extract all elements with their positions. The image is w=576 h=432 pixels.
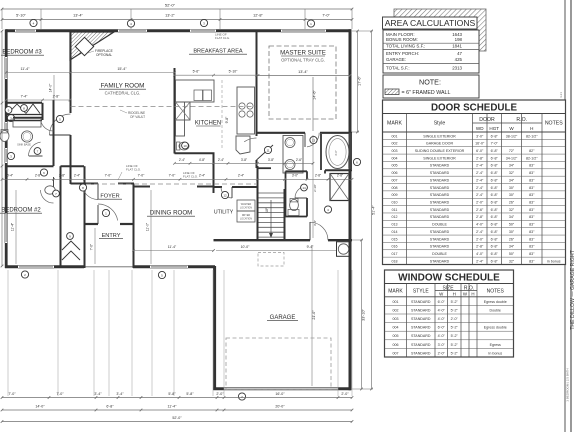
svg-text:11: 11 xyxy=(266,148,269,152)
door mark master bath xyxy=(310,136,317,143)
wall bedroom3 east / family west xyxy=(70,32,72,113)
svg-text:3'-4": 3'-4" xyxy=(116,392,124,396)
svg-text:6'-8": 6'-8" xyxy=(491,193,499,197)
svg-text:5'-4": 5'-4" xyxy=(7,174,13,178)
svg-text:007: 007 xyxy=(393,351,399,355)
svg-text:6'-8": 6'-8" xyxy=(491,252,499,256)
svg-text:LOCATION: LOCATION xyxy=(240,217,252,220)
svg-text:3 BEDROOM | 2.5 BATH: 3 BEDROOM | 2.5 BATH xyxy=(566,368,570,401)
dim line mid bath vertical xyxy=(312,135,314,238)
utility door arc D012 xyxy=(221,187,232,198)
svg-text:13: 13 xyxy=(312,138,316,142)
svg-text:7'-4": 7'-4" xyxy=(21,94,29,98)
attic access dashed xyxy=(258,253,284,267)
wall foyer/dining east xyxy=(133,184,135,269)
svg-text:UTILITY: UTILITY xyxy=(214,210,234,216)
wall dining east / utility west xyxy=(213,153,215,187)
svg-text:16'-0": 16'-0" xyxy=(475,142,485,146)
svg-text:6'-8": 6'-8" xyxy=(491,171,499,175)
svg-text:34": 34" xyxy=(509,245,515,249)
svg-text:DOUBLE: DOUBLE xyxy=(432,252,447,256)
door mark 003 xyxy=(200,19,207,26)
svg-text:12: 12 xyxy=(223,193,227,197)
svg-text:6'-8": 6'-8" xyxy=(491,245,499,249)
bath2 toilet xyxy=(45,186,55,194)
door schedule header xyxy=(473,118,502,120)
exterior wall right xyxy=(349,29,352,390)
window mark left 3 xyxy=(7,152,14,159)
window mark front bedroom2 xyxy=(21,271,28,278)
svg-text:CATHEDRAL CLG.: CATHEDRAL CLG. xyxy=(105,91,141,96)
kitchen upper cabinets dashed xyxy=(221,80,223,148)
stair up arrow xyxy=(270,200,272,236)
svg-text:6'-8": 6'-8" xyxy=(491,223,499,227)
svg-text:17'-6": 17'-6" xyxy=(357,76,361,86)
area calculations data box xyxy=(383,30,479,73)
svg-text:Egress double: Egress double xyxy=(484,300,507,304)
door mark bath1 xyxy=(34,148,41,155)
svg-text:NOTES: NOTES xyxy=(545,121,563,127)
svg-text:83": 83" xyxy=(529,215,535,219)
svg-text:FLAT CLG.: FLAT CLG. xyxy=(126,168,141,172)
svg-text:008: 008 xyxy=(392,186,398,190)
svg-text:47: 47 xyxy=(457,51,462,56)
svg-text:AREA CALCULATIONS: AREA CALCULATIONS xyxy=(385,18,476,28)
svg-text:Style: Style xyxy=(434,121,446,127)
svg-text:ENTRY: ENTRY xyxy=(102,233,121,239)
porch edge line xyxy=(84,266,133,268)
svg-text:4-21: 4-21 xyxy=(559,92,563,98)
svg-text:14'-0": 14'-0" xyxy=(35,405,45,409)
svg-text:2'-8": 2'-8" xyxy=(337,174,343,178)
svg-text:10: 10 xyxy=(183,144,187,148)
svg-text:NOTE:: NOTE: xyxy=(419,78,441,87)
svg-text:SINGLE EXTERIOR: SINGLE EXTERIOR xyxy=(423,134,456,138)
svg-text:STANDARD: STANDARD xyxy=(430,245,450,249)
svg-text:7'-0": 7'-0" xyxy=(105,174,113,178)
svg-text:6'-0": 6'-0" xyxy=(438,326,446,330)
six inch framed wall dark band xyxy=(349,133,352,169)
svg-text:7'-0": 7'-0" xyxy=(138,174,146,178)
window left wall 2 xyxy=(5,122,8,140)
svg-text:34": 34" xyxy=(509,178,515,182)
svg-text:DOUBLE: DOUBLE xyxy=(432,223,447,227)
svg-text:STANDARD: STANDARD xyxy=(411,334,431,338)
refrigerator xyxy=(236,136,250,154)
svg-text:83": 83" xyxy=(529,237,535,241)
svg-text:15'-4": 15'-4" xyxy=(117,67,127,71)
window mark top 1 xyxy=(30,19,37,26)
svg-text:MASTER SUITE: MASTER SUITE xyxy=(280,50,326,57)
svg-text:50": 50" xyxy=(509,223,515,227)
svg-text:11'-4": 11'-4" xyxy=(168,245,177,249)
svg-text:4'-8": 4'-8" xyxy=(199,158,205,162)
wall bed2 east closet xyxy=(60,166,62,266)
svg-text:5'-2": 5'-2" xyxy=(451,351,459,355)
svg-text:425: 425 xyxy=(455,57,463,62)
svg-text:2'-8": 2'-8" xyxy=(315,174,321,178)
window W006 front dining xyxy=(150,265,188,268)
svg-text:003: 003 xyxy=(392,149,398,153)
svg-text:NOTES: NOTES xyxy=(487,288,505,294)
bath1 vanity xyxy=(13,119,41,128)
window W004 top wall family room xyxy=(118,29,147,32)
exterior wall left xyxy=(5,29,8,268)
svg-text:2'-4": 2'-4" xyxy=(218,158,224,162)
svg-text:2'-4": 2'-4" xyxy=(476,186,484,190)
bath1 toilet xyxy=(0,131,9,142)
dim 14-0 vertical bed3 xyxy=(53,75,55,100)
kitchen counters top xyxy=(176,80,215,102)
svg-text:6'-8": 6'-8" xyxy=(106,405,114,409)
right dim horizontal stubs xyxy=(352,30,373,32)
area calculations title box xyxy=(383,17,478,29)
svg-text:005: 005 xyxy=(392,164,398,168)
svg-text:016: 016 xyxy=(392,245,398,249)
fireplace structure xyxy=(70,32,114,60)
svg-text:STANDARD: STANDARD xyxy=(411,326,431,330)
svg-text:OF VAULT: OF VAULT xyxy=(130,115,145,119)
bottom dim row 2 xyxy=(2,409,352,411)
bath1 sink xyxy=(21,131,32,142)
window left wall bedroom2 xyxy=(5,213,8,243)
door mark bath2 xyxy=(53,190,60,197)
svg-text:002: 002 xyxy=(392,142,398,146)
garage 10-0 dim xyxy=(216,250,284,252)
svg-text:In bonus: In bonus xyxy=(488,351,502,355)
svg-text:6'-8": 6'-8" xyxy=(491,178,499,182)
svg-text:2313: 2313 xyxy=(452,65,462,70)
framed wall legend swatch xyxy=(385,89,399,95)
svg-text:33'-10": 33'-10" xyxy=(361,308,365,320)
svg-text:STANDARD: STANDARD xyxy=(430,215,450,219)
svg-text:UP: UP xyxy=(265,207,269,212)
window mark right master bath xyxy=(353,158,360,165)
svg-text:6'-8": 6'-8" xyxy=(491,164,499,168)
svg-text:MARK: MARK xyxy=(388,288,403,294)
door mark closet bed2 xyxy=(67,233,74,240)
wall foyer west xyxy=(84,166,86,268)
door mark 005 xyxy=(56,115,63,122)
window mark left 2 xyxy=(7,114,14,121)
dim 7-0 vertical entry xyxy=(94,228,96,264)
svg-text:34": 34" xyxy=(509,215,515,219)
hall bath walls xyxy=(42,103,44,120)
dim line bedroom3/family xyxy=(6,72,175,74)
wall master west xyxy=(256,32,258,136)
svg-text:BONUS ROOM:: BONUS ROOM: xyxy=(386,37,418,42)
svg-text:5'-2": 5'-2" xyxy=(451,326,459,330)
svg-text:3'-4": 3'-4" xyxy=(94,392,102,396)
svg-text:72": 72" xyxy=(509,149,515,153)
foyer north wall xyxy=(71,183,99,185)
svg-text:11'-4": 11'-4" xyxy=(11,222,15,231)
svg-text:51'-4": 51'-4" xyxy=(371,205,375,215)
svg-text:6'-0": 6'-0" xyxy=(476,149,484,153)
svg-text:4'-0": 4'-0" xyxy=(476,252,484,256)
svg-text:2'-8": 2'-8" xyxy=(35,174,41,178)
stove burners xyxy=(239,103,245,109)
svg-text:34": 34" xyxy=(509,164,515,168)
svg-text:5'-8": 5'-8" xyxy=(168,392,176,396)
svg-text:H: H xyxy=(471,292,474,297)
svg-text:DINING ROOM: DINING ROOM xyxy=(150,210,193,217)
svg-text:GARAGE DOOR: GARAGE DOOR xyxy=(426,142,454,146)
svg-text:Egress: Egress xyxy=(490,343,501,347)
water heater xyxy=(337,242,351,256)
svg-text:83": 83" xyxy=(529,178,535,182)
svg-text:11'-4": 11'-4" xyxy=(168,405,178,409)
window left wall 1 xyxy=(5,57,8,79)
svg-text:2'-0": 2'-0" xyxy=(341,392,349,396)
svg-text:2'-4": 2'-4" xyxy=(179,158,185,162)
svg-text:83": 83" xyxy=(529,201,535,205)
stairs west wall xyxy=(257,166,259,241)
svg-text:11'-0": 11'-0" xyxy=(146,222,150,231)
garage left wall xyxy=(213,266,216,390)
window schedule table xyxy=(385,270,514,357)
svg-text:11'-4": 11'-4" xyxy=(21,67,31,71)
svg-text:38-1/2": 38-1/2" xyxy=(506,134,518,138)
svg-text:83": 83" xyxy=(529,259,535,263)
dining north wall stubs xyxy=(134,186,151,188)
svg-text:2'-8": 2'-8" xyxy=(59,174,65,178)
svg-text:018: 018 xyxy=(392,259,398,263)
kitchen south wall xyxy=(175,152,215,154)
area calculations hatched backdrop xyxy=(394,9,486,51)
svg-text:50": 50" xyxy=(509,252,515,256)
door mark 001 xyxy=(102,209,109,216)
svg-text:6'-8": 6'-8" xyxy=(491,149,499,153)
kitchen powder toilet xyxy=(179,142,189,150)
window W002 front bedroom2 xyxy=(18,265,54,268)
svg-text:STANDARD: STANDARD xyxy=(430,178,450,182)
svg-text:82-1/2": 82-1/2" xyxy=(526,156,538,160)
dim line bed3 bottom xyxy=(6,99,70,101)
entry/foyer wall with front door xyxy=(85,223,99,225)
right dim 51-4 xyxy=(371,31,373,389)
svg-text:BEDROOM #2: BEDROOM #2 xyxy=(1,208,41,214)
svg-text:6'-8": 6'-8" xyxy=(491,201,499,205)
svg-text:3'-6": 3'-6" xyxy=(334,150,338,156)
svg-text:3'-0": 3'-0" xyxy=(438,343,446,347)
svg-text:GARAGE: GARAGE xyxy=(270,315,296,321)
svg-text:2'-0": 2'-0" xyxy=(476,237,484,241)
window right wall master bath xyxy=(348,152,351,168)
svg-text:83": 83" xyxy=(529,245,535,249)
vanity sink 2 xyxy=(285,160,295,170)
svg-text:ENTRY PORCH:: ENTRY PORCH: xyxy=(386,51,419,56)
svg-text:STANDARD: STANDARD xyxy=(430,230,450,234)
svg-text:3'-8": 3'-8" xyxy=(268,158,274,162)
svg-text:16'-0": 16'-0" xyxy=(275,392,285,396)
vanity sink 1 xyxy=(285,138,295,148)
svg-text:3'-8": 3'-8" xyxy=(241,158,247,162)
svg-text:2'-0": 2'-0" xyxy=(438,351,446,355)
svg-text:in bonus: in bonus xyxy=(547,259,561,263)
svg-text:TOTAL LIVING S.F.:: TOTAL LIVING S.F.: xyxy=(386,43,425,48)
svg-text:STYLE: STYLE xyxy=(413,288,430,294)
svg-text:83": 83" xyxy=(529,164,535,168)
svg-text:006: 006 xyxy=(392,171,398,175)
svg-text:83": 83" xyxy=(529,208,535,212)
svg-text:5'-10": 5'-10" xyxy=(16,14,26,18)
svg-text:2'-0": 2'-0" xyxy=(476,201,484,205)
svg-text:6'-8": 6'-8" xyxy=(491,134,499,138)
svg-text:2'-0": 2'-0" xyxy=(216,392,224,396)
svg-text:BREAKFAST AREA: BREAKFAST AREA xyxy=(193,49,243,55)
svg-text:014: 014 xyxy=(392,230,398,234)
svg-text:14'-6": 14'-6" xyxy=(313,90,317,100)
svg-text:20'-0": 20'-0" xyxy=(275,405,285,409)
master bath vanity xyxy=(283,136,303,174)
dim 11-0 vertical dining xyxy=(150,190,152,264)
svg-text:83": 83" xyxy=(529,193,535,197)
door mark 002 garage door xyxy=(238,393,245,400)
bottom dim row 1 xyxy=(2,397,352,399)
svg-text:OPTIONAL TRAY CLG.: OPTIONAL TRAY CLG. xyxy=(281,58,325,63)
dim line dining 11-4 xyxy=(134,250,214,252)
svg-text:6'-8": 6'-8" xyxy=(491,259,499,263)
svg-text:6'-8": 6'-8" xyxy=(491,215,499,219)
note box xyxy=(383,75,479,98)
svg-text:2'-4": 2'-4" xyxy=(238,174,244,178)
svg-text:3'-0": 3'-0" xyxy=(292,174,298,178)
kitchen left counter xyxy=(176,102,185,136)
svg-text:9'-4": 9'-4" xyxy=(307,245,315,249)
door mark 012 xyxy=(221,191,228,198)
svg-text:6'-0": 6'-0" xyxy=(438,300,446,304)
svg-text:002: 002 xyxy=(393,308,399,312)
dim line breakfast xyxy=(175,74,257,76)
door mark bed2 xyxy=(40,169,47,176)
front door D001 leaf and arc xyxy=(98,204,118,221)
svg-text:5'-6": 5'-6" xyxy=(193,70,201,74)
svg-text:DOOR SCHEDULE: DOOR SCHEDULE xyxy=(431,103,517,114)
svg-text:7'-0": 7'-0" xyxy=(56,392,64,396)
svg-text:013: 013 xyxy=(392,223,398,227)
svg-text:2'-4": 2'-4" xyxy=(476,259,484,263)
right dim 17-6 xyxy=(357,31,359,132)
svg-text:SINK BASE: SINK BASE xyxy=(17,143,31,147)
svg-text:13'-2": 13'-2" xyxy=(165,14,175,18)
wall master hall east xyxy=(257,167,272,169)
dim line y179 across xyxy=(2,178,352,180)
svg-text:STANDARD: STANDARD xyxy=(430,237,450,241)
svg-text:007: 007 xyxy=(392,178,398,182)
bottom dim row 3 overall xyxy=(2,421,352,423)
utility room walls xyxy=(214,186,223,188)
svg-text:STANDARD: STANDARD xyxy=(430,193,450,197)
svg-text:003: 003 xyxy=(393,317,399,321)
svg-text:STANDARD: STANDARD xyxy=(411,351,431,355)
door mark 011 xyxy=(264,146,271,153)
svg-text:2'-8": 2'-8" xyxy=(53,94,61,98)
svg-text:32": 32" xyxy=(509,171,515,175)
window mark top master xyxy=(307,20,314,27)
svg-text:2'-8": 2'-8" xyxy=(476,156,484,160)
dim 11-4 vertical bed2 xyxy=(15,190,17,264)
svg-text:SINGLE EXTERIOR: SINGLE EXTERIOR xyxy=(423,156,456,160)
svg-text:STANDARD: STANDARD xyxy=(411,317,431,321)
front wall (south) xyxy=(5,265,84,268)
svg-text:14'-0": 14'-0" xyxy=(49,83,53,92)
svg-text:198: 198 xyxy=(455,37,463,42)
garden tub xyxy=(326,136,349,169)
svg-text:4'-0": 4'-0" xyxy=(476,223,484,227)
svg-text:005: 005 xyxy=(393,334,399,338)
svg-text:32": 32" xyxy=(509,259,515,263)
svg-text:WD: WD xyxy=(476,126,484,131)
kitchen right counter xyxy=(237,87,255,134)
svg-text:015: 015 xyxy=(392,237,398,241)
svg-text:Egress double: Egress double xyxy=(484,326,507,330)
ridgeline of vault dashed xyxy=(71,106,257,108)
bed2 door arc xyxy=(41,190,54,203)
svg-text:H: H xyxy=(530,126,533,131)
svg-text:011: 011 xyxy=(392,208,398,212)
wall under tub xyxy=(325,169,352,171)
bottom dim extension verticals xyxy=(7,270,9,396)
top dimension row segments xyxy=(2,19,352,21)
master dim 14-6 vertical xyxy=(312,77,314,131)
svg-text:Double: Double xyxy=(490,308,501,312)
svg-text:6'-8": 6'-8" xyxy=(491,156,499,160)
svg-text:GARAGE:: GARAGE: xyxy=(386,57,406,62)
door mark 004 xyxy=(324,206,331,213)
svg-text:STANDARD: STANDARD xyxy=(430,186,450,190)
svg-text:2'-4": 2'-4" xyxy=(476,178,484,182)
svg-text:010: 010 xyxy=(392,201,398,205)
powder sink pedestal xyxy=(288,210,299,216)
svg-text:004: 004 xyxy=(392,156,398,160)
left dim line xyxy=(1,31,3,266)
window mark top 2 xyxy=(127,20,134,27)
svg-text:1841: 1841 xyxy=(452,43,462,48)
svg-text:32": 32" xyxy=(509,208,515,212)
svg-text:FAMILY ROOM: FAMILY ROOM xyxy=(101,83,145,90)
svg-text:006: 006 xyxy=(393,343,399,347)
powder room walls xyxy=(285,171,287,216)
svg-text:4'-0": 4'-0" xyxy=(438,317,446,321)
svg-text:TOTAL S.F.:: TOTAL S.F.: xyxy=(386,65,410,70)
svg-text:26": 26" xyxy=(509,237,515,241)
svg-text:5'-8": 5'-8" xyxy=(186,392,194,396)
closet mark xyxy=(5,107,12,114)
svg-text:83": 83" xyxy=(529,186,535,190)
svg-text:LOCATION: LOCATION xyxy=(240,206,252,209)
door schedule table xyxy=(383,100,566,265)
svg-text:7'-0": 7'-0" xyxy=(322,14,330,18)
svg-text:83": 83" xyxy=(529,223,535,227)
svg-text:W: W xyxy=(509,126,514,131)
svg-text:26": 26" xyxy=(509,201,515,205)
svg-text:21'-0": 21'-0" xyxy=(312,310,316,320)
door D005 bedroom3 xyxy=(50,114,71,135)
door 003 sliding glass breakfast xyxy=(190,29,216,32)
window W001 top wall master xyxy=(281,29,326,32)
window W005 top wall bedroom3 xyxy=(15,29,36,32)
exterior wall top xyxy=(6,29,351,32)
wic wall xyxy=(324,170,326,173)
flat ceiling dashed line foyer/dining xyxy=(86,183,256,185)
svg-text:2'-10": 2'-10" xyxy=(313,184,317,192)
svg-text:MARK: MARK xyxy=(387,121,403,127)
svg-text:2'-8": 2'-8" xyxy=(476,215,484,219)
svg-text:83": 83" xyxy=(529,252,535,256)
svg-text:7'-0": 7'-0" xyxy=(8,392,16,396)
svg-text:2'-0": 2'-0" xyxy=(451,317,459,321)
